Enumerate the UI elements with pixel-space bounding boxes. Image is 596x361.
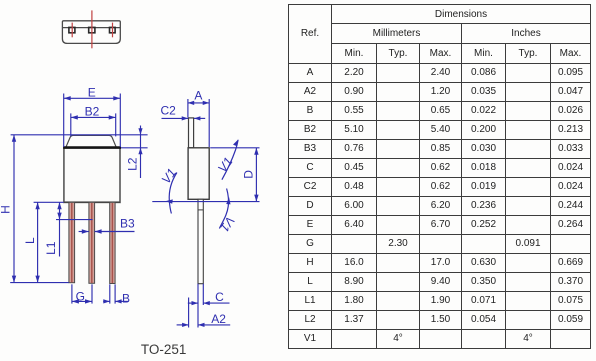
- front view lead 2: [89, 202, 95, 283]
- svg-text:H: H: [0, 205, 12, 214]
- G dimension: [71, 284, 73, 303]
- svg-text:D: D: [242, 170, 256, 179]
- side bottom extension line: [152, 201, 259, 203]
- svg-text:C: C: [215, 290, 224, 304]
- L dimension: [37, 202, 39, 282]
- svg-text:B2: B2: [85, 104, 100, 118]
- svg-text:L1: L1: [44, 241, 58, 255]
- front view body bottom edge: [64, 201, 120, 203]
- front view lead 3: [110, 202, 115, 283]
- svg-text:B: B: [122, 292, 130, 306]
- center line pin 1: [71, 23, 73, 38]
- B2 dimension: [71, 113, 116, 136]
- dimensions table: [288, 4, 591, 349]
- side view lead: [198, 199, 203, 283]
- svg-text:L2: L2: [126, 157, 140, 171]
- side view body: [188, 148, 209, 200]
- front view body top edge (thick): [63, 146, 121, 149]
- A2 dimension: [188, 298, 190, 328]
- L top extension line: [34, 201, 64, 203]
- C dimension: [197, 284, 199, 328]
- top view body outline: [62, 21, 120, 44]
- package drawing SVG: [0, 0, 290, 361]
- top view pin 2 cross-section: [89, 27, 95, 32]
- C2 dimension: [162, 117, 189, 119]
- H/L bottom extension line: [10, 282, 69, 284]
- V1 top right arc leader: [222, 140, 238, 180]
- L1 dimension: [59, 202, 61, 256]
- V1 bottom right arc leader: [219, 189, 228, 229]
- svg-text:A2: A2: [211, 312, 226, 326]
- H dimension: [13, 135, 15, 283]
- D dimension: [210, 147, 259, 149]
- B3 dimension: [79, 231, 89, 233]
- V1 left arc leader: [169, 173, 177, 214]
- svg-text:TO-251: TO-251: [141, 342, 187, 357]
- svg-text:V1: V1: [159, 166, 179, 187]
- top view inner edge line: [62, 27, 120, 29]
- front view cap (mold top): [66, 135, 116, 147]
- B dimension: [109, 284, 111, 303]
- front view lead 1: [69, 202, 75, 282]
- side view tab: [189, 118, 194, 148]
- H/L2 top extension line: [11, 134, 148, 136]
- E dimension: [64, 94, 121, 148]
- svg-text:G: G: [76, 290, 85, 304]
- A dimension: [188, 99, 210, 147]
- L2 dimension: [121, 147, 148, 149]
- svg-text:L: L: [23, 237, 37, 244]
- svg-text:E: E: [88, 85, 96, 99]
- front view body: [64, 148, 120, 203]
- svg-text:V1: V1: [217, 214, 237, 235]
- top view pin 3 cross-section: [110, 27, 116, 32]
- L1 bottom extension line: [56, 219, 93, 221]
- svg-text:C2: C2: [161, 103, 177, 117]
- top view pin 1 cross-section: [69, 27, 75, 32]
- svg-text:B3: B3: [120, 216, 135, 230]
- svg-text:A: A: [194, 88, 202, 102]
- center line pin 2 (long): [91, 10, 93, 48]
- center line pin 3: [112, 23, 114, 38]
